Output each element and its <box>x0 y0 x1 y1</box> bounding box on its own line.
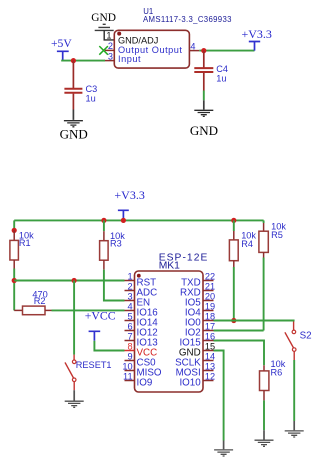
svg-text:1u: 1u <box>86 93 96 103</box>
svg-text:R2: R2 <box>34 296 46 306</box>
junction dot +V3.3 stem <box>121 218 126 223</box>
svg-text:R6: R6 <box>271 368 283 378</box>
wire IO0 (pin 18) to S2 <box>214 321 294 322</box>
svg-text:+V3.3: +V3.3 <box>114 188 144 202</box>
switch RESET1 <box>65 355 76 391</box>
pin 5 IO14 <box>125 320 135 322</box>
pin 4 U1 <box>189 50 199 52</box>
wire R6 to ground <box>263 400 265 430</box>
pin 10 MISO <box>125 370 135 372</box>
svg-text:8: 8 <box>127 341 132 351</box>
pin 20 IO5 <box>203 300 214 302</box>
wire RST row <box>14 280 124 282</box>
pin 6 IO12 <box>125 330 135 332</box>
svg-text:19: 19 <box>205 301 215 311</box>
svg-text:14: 14 <box>205 351 215 361</box>
svg-text:6: 6 <box>127 321 132 331</box>
wire IO15 (pin 16) to R6 <box>214 341 265 366</box>
junction dot R4 top <box>231 218 236 223</box>
svg-text:13: 13 <box>205 361 215 371</box>
svg-text:2: 2 <box>127 281 132 291</box>
svg-text:11: 11 <box>123 371 133 381</box>
ground (below R6) <box>255 430 274 446</box>
wire +V3.3 rail (horizontal) <box>14 219 263 221</box>
pin 3 U1 <box>105 60 115 62</box>
pin 16 IO15 <box>203 340 214 342</box>
node +V3.3 (power flag, bottom) <box>114 188 144 221</box>
pin 4 IO16 <box>125 310 135 312</box>
wire R5 to IO2 (pin 17) <box>263 258 265 331</box>
svg-text:S2: S2 <box>300 330 312 341</box>
svg-text:Input: Input <box>118 54 141 64</box>
pin 18 IO0 <box>203 320 214 322</box>
svg-text:3: 3 <box>108 51 113 61</box>
wire IO2 (pin 17) to R5 <box>214 330 264 332</box>
wire (GND flag to U1 pin 1) <box>104 30 114 40</box>
wire U1 pin 4 to +V3.3 <box>199 50 254 52</box>
svg-text:4: 4 <box>127 301 132 311</box>
wire R4 to IO0 row <box>233 267 235 321</box>
wire R3 to EN (pin 3) <box>104 270 125 301</box>
junction dot +5V/C3 <box>71 58 76 63</box>
pin 22 TXD <box>203 280 214 282</box>
node +V3.3 (power flag, top) <box>242 27 272 51</box>
wire R2 to IO16 (pin 4) <box>52 309 125 311</box>
svg-text:4: 4 <box>190 41 195 51</box>
ground (below RESET1) <box>65 390 84 407</box>
junction dot R4/IO0 <box>231 318 236 323</box>
svg-text:1u: 1u <box>216 73 226 83</box>
pin 13 MOSI <box>203 370 214 372</box>
pin 14 SCLK <box>203 360 214 362</box>
pin 2 U1 <box>105 49 114 51</box>
pin 12 IO10 <box>203 380 214 382</box>
svg-text:12: 12 <box>205 371 215 381</box>
junction dot RESET1 top <box>72 278 77 283</box>
svg-text:2: 2 <box>108 41 113 51</box>
pin 21 RXD <box>203 290 214 292</box>
capacitor C4 <box>194 51 213 91</box>
svg-text:10: 10 <box>122 361 132 371</box>
node +VCC (power flag) <box>85 309 116 341</box>
pin 1 marker dot U1 <box>117 32 121 36</box>
resistor R1 <box>10 230 19 268</box>
wire S2 to ground <box>293 360 295 421</box>
svg-text:IO9: IO9 <box>137 378 153 389</box>
node GND (flag above U1) <box>91 12 116 31</box>
svg-text:GND: GND <box>60 127 88 142</box>
ground (below C3) <box>60 110 88 142</box>
ground (pin 15) <box>214 441 233 457</box>
svg-text:RESET1: RESET1 <box>76 360 112 370</box>
ESP-12E MK1 body <box>135 271 204 392</box>
svg-text:AMS1117-3.3_C369933: AMS1117-3.3_C369933 <box>143 15 232 24</box>
junction dot R3 top <box>101 218 106 223</box>
svg-text:1: 1 <box>127 271 132 281</box>
svg-text:+V3.3: +V3.3 <box>242 27 272 41</box>
svg-text:R5: R5 <box>271 230 283 240</box>
ground (below C4) <box>190 100 218 138</box>
node +5V (power flag) <box>51 37 72 61</box>
svg-text:5: 5 <box>127 311 132 321</box>
svg-text:1: 1 <box>106 31 111 41</box>
no-connect X pin 2 <box>99 46 108 55</box>
svg-text:20: 20 <box>205 291 215 301</box>
svg-text:GND: GND <box>91 12 116 24</box>
wire C4 to ground <box>203 91 205 101</box>
pin 1 marker dot MK1 <box>137 274 141 278</box>
wire RESET1 drop <box>73 281 75 355</box>
svg-text:+5V: +5V <box>51 37 72 50</box>
pin 11 IO9 <box>125 380 135 382</box>
svg-text:7: 7 <box>127 331 132 341</box>
wire R1 bottom to R2 (vertical) <box>13 269 15 311</box>
junction dot RST/left rail <box>12 278 17 283</box>
pin 15 GND <box>203 350 214 352</box>
resistor R2 <box>14 306 51 315</box>
switch S2 <box>285 322 296 361</box>
junction dot R1 top <box>12 228 17 233</box>
svg-text:GND: GND <box>190 123 218 138</box>
resistor R4 <box>229 220 238 267</box>
pin 2 ADC <box>125 290 135 292</box>
svg-text:9: 9 <box>127 351 132 361</box>
pin 1 RST <box>125 280 135 282</box>
svg-text:IO10: IO10 <box>179 378 201 389</box>
svg-text:22: 22 <box>205 271 215 281</box>
resistor R3 <box>100 220 109 269</box>
svg-text:21: 21 <box>205 281 215 291</box>
pin 3 EN <box>125 300 135 302</box>
pin 8 VCC <box>125 350 135 352</box>
pin 9 CS0 <box>125 360 135 362</box>
wire +5V to U1 pin 3 <box>61 60 105 62</box>
ground (below S2) <box>285 421 304 437</box>
wire +VCC to pin 8 <box>94 341 124 351</box>
capacitor C3 <box>64 61 82 110</box>
svg-text:R4: R4 <box>241 239 253 249</box>
pin 19 IO4 <box>203 310 214 312</box>
wire GND (pin 15) down <box>214 351 224 441</box>
pin 7 IO13 <box>125 340 135 342</box>
svg-text:R1: R1 <box>19 238 31 248</box>
pin 17 IO2 <box>203 330 214 332</box>
resistor R6 <box>260 365 269 400</box>
svg-text:R3: R3 <box>110 239 122 249</box>
svg-text:3: 3 <box>127 291 132 301</box>
svg-text:+VCC: +VCC <box>85 309 116 323</box>
wire rail down to R1 <box>13 220 15 230</box>
junction dot pin4/C4 <box>201 48 206 53</box>
resistor R5 <box>259 220 268 257</box>
op-amp U1 body <box>114 30 189 68</box>
svg-text:MK1: MK1 <box>159 260 180 271</box>
